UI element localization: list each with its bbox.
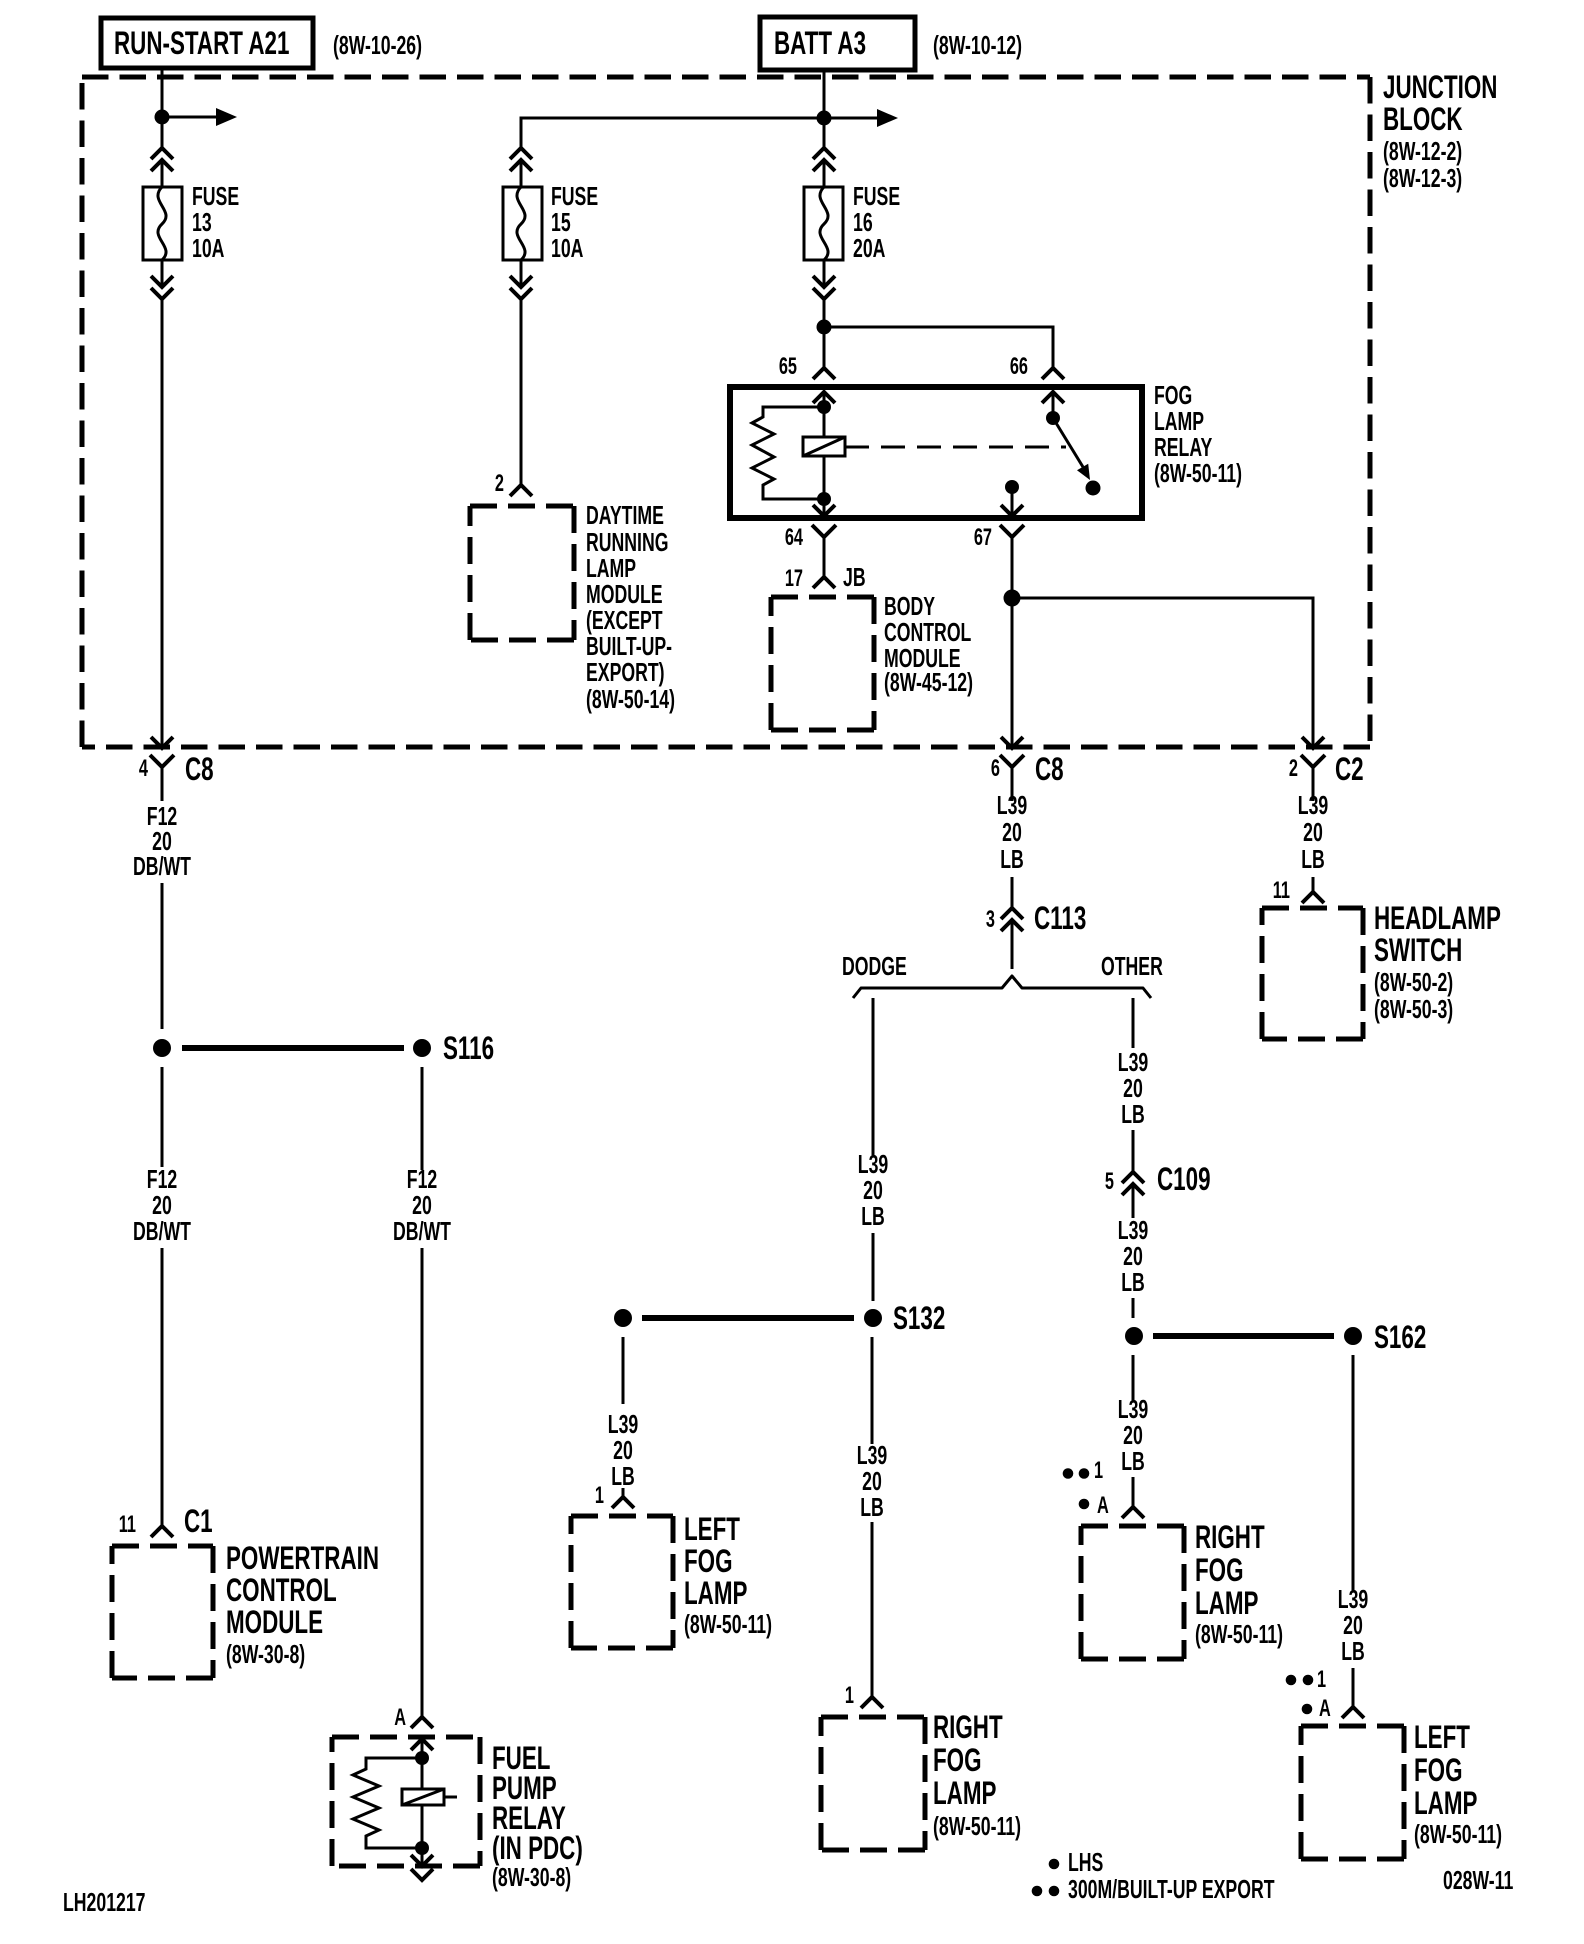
- wire label L39 20 LB right fog lamp other: [1118, 1395, 1148, 1476]
- connector double chevron below fuse 16: [813, 276, 835, 299]
- svg-text:LB: LB: [1000, 845, 1024, 874]
- resistor fuel pump relay coil suppression: [353, 1758, 422, 1848]
- svg-text:(8W-50-11): (8W-50-11): [1154, 459, 1242, 488]
- connector C1 pin 11: [119, 1503, 213, 1539]
- wire DODGE branch: [872, 998, 875, 1155]
- wire branch junction to C2: [1012, 598, 1313, 748]
- svg-text:13: 13: [192, 208, 212, 237]
- wire pin 67 inside relay: [1011, 487, 1014, 516]
- svg-text:DB/WT: DB/WT: [393, 1217, 451, 1246]
- relay control dashed line: [845, 446, 1066, 449]
- wire fuse 13 to junction block border: [161, 260, 164, 287]
- svg-text:LAMP: LAMP: [1154, 407, 1204, 436]
- node relay coil bottom junction: [817, 492, 831, 506]
- connector C8 pin 4: [139, 737, 214, 790]
- svg-text:LB: LB: [860, 1493, 884, 1522]
- relay switch contact: [1046, 411, 1101, 496]
- pin 66 connector chevrons: [1010, 353, 1064, 403]
- svg-text:(8W-30-8): (8W-30-8): [226, 1640, 305, 1669]
- right fog lamp box: [821, 1709, 1021, 1850]
- wire to left fog lamp: [622, 1488, 625, 1497]
- wire label L39 20 LB OTHER branch: [1118, 1048, 1148, 1129]
- svg-text:EXPORT): EXPORT): [586, 658, 665, 687]
- svg-text:1: 1: [1317, 1666, 1326, 1693]
- svg-text:1: 1: [595, 1482, 604, 1509]
- svg-text:HEADLAMP: HEADLAMP: [1374, 900, 1501, 936]
- legend LHS: [1049, 1848, 1104, 1877]
- svg-text:FUSE: FUSE: [192, 182, 239, 211]
- svg-text:LAMP: LAMP: [1414, 1785, 1477, 1821]
- svg-text:(8W-12-3): (8W-12-3): [1383, 164, 1462, 193]
- svg-text:BUILT-UP-: BUILT-UP-: [586, 632, 672, 661]
- headlamp switch box: [1262, 900, 1501, 1039]
- svg-text:L39: L39: [1338, 1585, 1368, 1614]
- svg-text:A: A: [394, 1704, 406, 1731]
- wire label F12 20 DB/WT lower left: [133, 1165, 191, 1246]
- node fog lamp feed junction: [1004, 590, 1021, 607]
- svg-text:LB: LB: [611, 1462, 635, 1491]
- connector C109 pin 5: [1105, 1161, 1211, 1197]
- connector pin 11 headlamp switch: [1273, 877, 1324, 904]
- svg-text:SWITCH: SWITCH: [1374, 932, 1462, 968]
- connector left fog lamp other: [1342, 1707, 1364, 1718]
- svg-text:(8W-12-2): (8W-12-2): [1383, 137, 1462, 166]
- connector C8 pin 6: [991, 737, 1064, 790]
- svg-text:(8W-10-26): (8W-10-26): [333, 31, 422, 60]
- node RUN-START A21: [101, 18, 422, 68]
- pin 67 chevrons: [974, 505, 1024, 551]
- svg-text:A: A: [1319, 1695, 1331, 1722]
- connector C2 pin 2: [1289, 737, 1364, 790]
- junction block label: [1383, 69, 1497, 193]
- wire C109 to label: [1132, 1184, 1135, 1218]
- svg-text:20: 20: [1303, 818, 1323, 847]
- svg-text:DB/WT: DB/WT: [133, 1217, 191, 1246]
- wire OTHER branch: [1132, 998, 1135, 1048]
- junction block dashed border: [82, 77, 1370, 747]
- node relay coil top junction: [817, 400, 831, 414]
- svg-text:15: 15: [551, 208, 571, 237]
- svg-text:RELAY: RELAY: [1154, 433, 1212, 462]
- svg-text:BATT A3: BATT A3: [774, 25, 866, 61]
- svg-text:FOG: FOG: [1414, 1752, 1463, 1788]
- svg-text:BLOCK: BLOCK: [1383, 101, 1463, 137]
- svg-text:2: 2: [1289, 755, 1298, 782]
- wire pin 67 to junction: [1011, 537, 1014, 748]
- powertrain control module box: [112, 1540, 379, 1678]
- svg-text:5: 5: [1105, 1168, 1114, 1195]
- svg-text:20: 20: [412, 1191, 432, 1220]
- connector double chevron above fuse 13: [151, 148, 173, 171]
- svg-text:(8W-50-11): (8W-50-11): [684, 1610, 772, 1639]
- svg-text:(8W-50-3): (8W-50-3): [1374, 995, 1453, 1024]
- svg-text:FOG: FOG: [684, 1543, 733, 1579]
- svg-text:C113: C113: [1034, 900, 1086, 936]
- svg-text:LB: LB: [861, 1202, 885, 1231]
- relay coil fog lamp: [803, 407, 845, 499]
- wire label L39 20 LB left fog lamp other: [1338, 1585, 1368, 1666]
- svg-text:L39: L39: [1118, 1216, 1148, 1245]
- svg-text:20: 20: [863, 1176, 883, 1205]
- svg-text:(8W-30-8): (8W-30-8): [492, 1863, 571, 1892]
- connector double chevron above fuse 15: [510, 148, 532, 171]
- wire to S162 junction: [1132, 1298, 1135, 1318]
- svg-text:028W-11: 028W-11: [1443, 1866, 1513, 1895]
- svg-text:(8W-50-11): (8W-50-11): [1414, 1820, 1502, 1849]
- svg-text:65: 65: [779, 353, 797, 380]
- wire coil to pin 64: [823, 499, 826, 516]
- wire label L39 20 LB below C8 pin 6: [997, 790, 1027, 874]
- pin 65 connector chevrons: [779, 353, 835, 403]
- svg-text:20A: 20A: [853, 234, 885, 263]
- svg-text:20: 20: [152, 1191, 172, 1220]
- svg-text:LAMP: LAMP: [1195, 1585, 1258, 1621]
- wire C8 branch to C113: [1011, 877, 1014, 908]
- svg-text:3: 3: [986, 906, 995, 933]
- svg-text:17: 17: [785, 565, 803, 592]
- wire label L39 20 LB left fog lamp: [608, 1410, 638, 1491]
- svg-text:LEFT: LEFT: [1414, 1719, 1470, 1755]
- connector double chevron below fuse 13: [151, 276, 173, 299]
- fuse 13 10A: [143, 182, 239, 263]
- svg-text:S162: S162: [1374, 1319, 1426, 1355]
- svg-text:(IN PDC): (IN PDC): [492, 1830, 583, 1866]
- body control module box: [771, 592, 973, 730]
- svg-text:OTHER: OTHER: [1101, 952, 1163, 981]
- svg-text:JUNCTION: JUNCTION: [1383, 69, 1497, 105]
- wire fuse 16 to fog lamp relay pin 65: [823, 260, 826, 287]
- legend 300M built-up export: [1032, 1875, 1275, 1904]
- fuse 15 10A: [503, 182, 598, 263]
- svg-text:20: 20: [1123, 1242, 1143, 1271]
- svg-text:10A: 10A: [551, 234, 583, 263]
- svg-text:BODY: BODY: [884, 592, 935, 621]
- svg-text:20: 20: [1123, 1421, 1143, 1450]
- svg-text:1: 1: [1094, 1457, 1103, 1484]
- node relay feed junction: [817, 320, 832, 335]
- svg-text:MODULE: MODULE: [226, 1604, 323, 1640]
- wire S116 right branch: [421, 1067, 424, 1170]
- wire S132 right branch: [871, 1337, 874, 1444]
- svg-text:LEFT: LEFT: [684, 1511, 740, 1547]
- wire C113 to split: [1011, 920, 1014, 969]
- wire label F12 20 DB/WT upper: [133, 790, 191, 881]
- svg-text:4: 4: [139, 755, 149, 782]
- svg-text:FOG: FOG: [1154, 381, 1192, 410]
- svg-text:C109: C109: [1157, 1161, 1211, 1197]
- svg-text:LHS: LHS: [1068, 1848, 1103, 1877]
- svg-text:300M/BUILT-UP EXPORT: 300M/BUILT-UP EXPORT: [1068, 1875, 1275, 1904]
- wire S162 left branch to right fog lamp: [1132, 1355, 1135, 1400]
- connector pin 17 body control module: [785, 563, 866, 592]
- connector pin A fuel pump relay: [394, 1704, 433, 1750]
- wire DODGE branch to S132: [872, 1233, 875, 1301]
- label DODGE: [842, 952, 907, 981]
- svg-text:64: 64: [785, 524, 804, 551]
- fuse 16 20A: [804, 182, 900, 263]
- svg-text:67: 67: [974, 524, 992, 551]
- svg-text:2: 2: [495, 470, 504, 497]
- svg-text:JB: JB: [843, 563, 866, 592]
- wire label L39 20 LB DODGE branch: [858, 1150, 888, 1231]
- splice S132: [614, 1300, 945, 1336]
- node pin 67 contact: [1005, 480, 1019, 494]
- pin variant marker A left fog lamp: [1302, 1695, 1331, 1722]
- wire RUN-START A21 feed: [161, 68, 164, 148]
- connector pin 2 daytime running lamp module: [495, 470, 532, 497]
- svg-text:LB: LB: [1341, 1637, 1365, 1666]
- svg-text:CONTROL: CONTROL: [226, 1572, 337, 1608]
- node A21 junction with feed arrow: [155, 108, 238, 126]
- svg-text:(8W-50-2): (8W-50-2): [1374, 968, 1453, 997]
- node fuel pump relay top junction: [415, 1751, 429, 1765]
- svg-text:LAMP: LAMP: [586, 554, 636, 583]
- svg-text:C2: C2: [1335, 751, 1364, 787]
- node fuel pump relay bottom junction: [415, 1841, 429, 1855]
- connector double chevron above fuse 16: [813, 148, 835, 171]
- brace wire split: [853, 976, 1151, 998]
- svg-text:C1: C1: [184, 1503, 213, 1539]
- svg-text:FUSE: FUSE: [551, 182, 598, 211]
- splice S162: [1125, 1319, 1426, 1355]
- wire C2 to headlamp switch: [1312, 877, 1315, 892]
- svg-text:L39: L39: [608, 1410, 638, 1439]
- splice S116: [153, 1030, 494, 1066]
- wire label L39 20 LB below C2: [1298, 790, 1328, 874]
- svg-text:FUSE: FUSE: [853, 182, 900, 211]
- svg-text:LB: LB: [1121, 1447, 1145, 1476]
- svg-text:RIGHT: RIGHT: [1195, 1519, 1265, 1555]
- svg-text:L39: L39: [997, 791, 1027, 820]
- svg-text:LH201217: LH201217: [63, 1888, 146, 1917]
- wire fuel pump relay to ground arrow: [421, 1848, 424, 1866]
- connector pin 1 right fog lamp: [845, 1682, 883, 1709]
- label 028W-11: [1443, 1866, 1513, 1895]
- wire BATT A3 feed: [823, 70, 826, 148]
- svg-text:20: 20: [1343, 1611, 1363, 1640]
- fog lamp relay label: [1154, 381, 1242, 488]
- wire label F12 20 DB/WT lower right: [393, 1165, 451, 1246]
- svg-text:LB: LB: [1301, 845, 1325, 874]
- svg-text:L39: L39: [1118, 1395, 1148, 1424]
- svg-text:FOG: FOG: [933, 1742, 982, 1778]
- svg-text:DAYTIME: DAYTIME: [586, 501, 664, 530]
- connector pin 1 left fog lamp: [595, 1482, 634, 1509]
- svg-text:(8W-50-11): (8W-50-11): [1195, 1620, 1283, 1649]
- svg-text:20: 20: [862, 1467, 882, 1496]
- left fog lamp box: [571, 1511, 772, 1648]
- svg-text:LB: LB: [1121, 1100, 1145, 1129]
- svg-text:POWERTRAIN: POWERTRAIN: [226, 1540, 379, 1576]
- svg-text:DODGE: DODGE: [842, 952, 907, 981]
- svg-text:DB/WT: DB/WT: [133, 852, 191, 881]
- wire to fuel pump relay pin A: [421, 1248, 424, 1717]
- wire branch to relay pin 66: [824, 327, 1053, 368]
- svg-text:20: 20: [1123, 1074, 1143, 1103]
- connector right fog lamp other: [1122, 1507, 1144, 1518]
- svg-text:FOG: FOG: [1195, 1552, 1244, 1588]
- left fog lamp box other: [1301, 1719, 1502, 1859]
- label OTHER: [1101, 952, 1163, 981]
- wire fuse 15 to daytime running lamp module: [520, 260, 523, 287]
- svg-text:CONTROL: CONTROL: [884, 618, 971, 647]
- svg-text:C8: C8: [1035, 751, 1064, 787]
- wire to left fog lamp other: [1352, 1668, 1355, 1707]
- relay K1 fog lamp relay box: [730, 387, 1142, 518]
- relay K2 fuel pump relay box: [332, 1737, 480, 1866]
- wire BATT junction to fuse 15: [521, 118, 824, 148]
- svg-text:S116: S116: [443, 1030, 494, 1066]
- svg-text:66: 66: [1010, 353, 1028, 380]
- svg-text:LB: LB: [1121, 1268, 1145, 1297]
- wire to right fog lamp: [871, 1522, 874, 1697]
- svg-text:L39: L39: [857, 1441, 887, 1470]
- wire S116 left branch: [161, 1067, 164, 1167]
- label LH201217: [63, 1888, 146, 1917]
- svg-text:L39: L39: [858, 1150, 888, 1179]
- svg-text:RIGHT: RIGHT: [933, 1709, 1003, 1745]
- pin variant marker 1 right fog lamp: [1063, 1457, 1103, 1484]
- svg-text:(8W-50-11): (8W-50-11): [933, 1812, 1021, 1841]
- svg-text:(8W-50-14): (8W-50-14): [586, 685, 675, 714]
- svg-text:MODULE: MODULE: [586, 580, 663, 609]
- svg-text:S132: S132: [893, 1300, 945, 1336]
- svg-text:F12: F12: [407, 1165, 437, 1194]
- svg-text:(8W-45-12): (8W-45-12): [884, 668, 973, 697]
- connector double chevron fuel pump relay ground: [411, 1855, 433, 1880]
- pin variant marker 1 left fog lamp: [1286, 1666, 1326, 1693]
- pin variant marker A right fog lamp: [1079, 1492, 1109, 1519]
- svg-text:LAMP: LAMP: [933, 1775, 996, 1811]
- node BATT A3 junction with feed arrow: [817, 109, 899, 127]
- wire S162 right branch: [1352, 1355, 1355, 1590]
- svg-text:16: 16: [853, 208, 873, 237]
- node BATT A3: [760, 17, 1022, 70]
- svg-text:LAMP: LAMP: [684, 1575, 747, 1611]
- relay coil fuel pump: [402, 1758, 457, 1848]
- svg-text:A: A: [1097, 1492, 1109, 1519]
- svg-text:L39: L39: [1298, 791, 1328, 820]
- svg-text:(EXCEPT: (EXCEPT: [586, 606, 663, 635]
- svg-text:20: 20: [613, 1436, 633, 1465]
- svg-text:RUNNING: RUNNING: [586, 528, 668, 557]
- right fog lamp box other: [1081, 1519, 1283, 1659]
- svg-text:10A: 10A: [192, 234, 224, 263]
- svg-text:11: 11: [119, 1511, 136, 1538]
- svg-text:(8W-10-12): (8W-10-12): [933, 31, 1022, 60]
- wire S132 left branch: [622, 1337, 625, 1404]
- pin 64 chevrons: [785, 505, 836, 577]
- fuel pump relay label: [492, 1740, 583, 1892]
- wire label L39 20 LB right fog lamp: [857, 1441, 887, 1522]
- wire C8 pin4 to splice S116: [161, 883, 164, 1029]
- wire OTHER branch to C109: [1132, 1130, 1135, 1172]
- svg-text:C8: C8: [185, 751, 214, 787]
- wire label L39 20 LB below C109: [1118, 1216, 1148, 1297]
- svg-text:F12: F12: [147, 1165, 177, 1194]
- wire to PCM connector C1: [161, 1248, 164, 1526]
- connector double chevron below fuse 15: [510, 276, 532, 299]
- svg-text:6: 6: [991, 755, 1000, 782]
- connector C113 pin 3: [986, 900, 1086, 936]
- resistor fog lamp relay coil suppression: [752, 407, 824, 499]
- svg-text:L39: L39: [1118, 1048, 1148, 1077]
- svg-text:RUN-START A21: RUN-START A21: [114, 25, 289, 61]
- svg-text:20: 20: [1002, 818, 1022, 847]
- svg-text:1: 1: [845, 1682, 854, 1709]
- daytime running lamp module box: [470, 501, 675, 714]
- svg-text:11: 11: [1273, 877, 1290, 904]
- wire to right fog lamp other: [1132, 1477, 1135, 1507]
